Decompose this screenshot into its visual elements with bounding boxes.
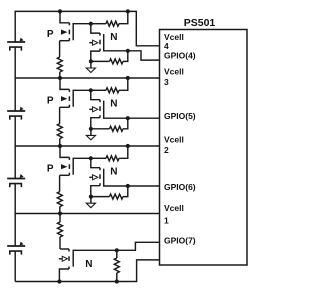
wire: top bus to Vcell 4 pin: [60, 11, 160, 45]
node: N gate / pull-down junction: [126, 184, 130, 188]
node: N gate / pull-down junction: [115, 248, 119, 252]
transistor Q7 N-channel MOSFET (bottom): [60, 248, 69, 250]
ground: [90, 61, 92, 68]
wire: Vcell 3 bus row: [15, 77, 159, 79]
node: N gate / pull-down junction: [126, 49, 130, 53]
node: top bus / pull-up resistor: [126, 9, 130, 13]
node: N source / ground junction: [89, 195, 93, 199]
svg-text:PS501: PS501: [184, 17, 216, 29]
ground: [90, 129, 92, 136]
ground: [90, 197, 92, 204]
svg-text:GPIO(7): GPIO(7): [164, 235, 196, 245]
node: bus row / balance tap: [58, 211, 62, 215]
wire: left chain top segment: [15, 11, 60, 42]
node: top bus / P source tap: [58, 9, 62, 13]
battery cell B3: [7, 110, 25, 112]
svg-text:Vcell: Vcell: [164, 135, 184, 145]
resistor R4 gate pull-up: [91, 89, 106, 91]
node: P gate / N drain junction: [89, 22, 93, 26]
resistor R2 gate pull-down: [91, 60, 110, 62]
svg-text:GPIO(5): GPIO(5): [164, 111, 196, 121]
svg-text:P: P: [47, 164, 54, 175]
resistor R3 balance: [59, 41, 61, 57]
resistor R8 gate pull-down: [91, 196, 110, 198]
wire: GPIO(5) connection: [128, 117, 160, 119]
svg-text:2: 2: [164, 145, 169, 155]
wire: [14, 47, 16, 111]
battery cell B1: [7, 245, 25, 247]
node: P gate / N drain junction: [89, 88, 93, 92]
svg-text:Vcell: Vcell: [164, 203, 184, 213]
wire: [14, 184, 16, 246]
svg-text:P: P: [47, 96, 54, 107]
transistor Q5 P-channel MOSFET: [60, 146, 69, 157]
wire: [14, 251, 16, 281]
transistor Q1 P-channel MOSFET: [60, 11, 69, 22]
svg-text:N: N: [110, 32, 117, 43]
node: bus row / pull-up resistor: [126, 144, 130, 148]
wire: GPIO(6) connection: [128, 185, 160, 187]
resistor R7 gate pull-up: [91, 157, 106, 159]
node: P gate / N drain junction: [89, 156, 93, 160]
node: bus row / balance tap: [58, 144, 62, 148]
node: bottom bus / pull-down resistor: [115, 279, 119, 283]
wire: bottom bus to Vss pin: [15, 260, 159, 282]
resistor R9 balance: [59, 175, 61, 191]
node: N source / ground junction: [89, 59, 93, 63]
svg-text:N: N: [110, 99, 117, 110]
transistor Q2 N-channel MOSFET: [91, 24, 100, 33]
wire: GPIO(4) connection: [128, 51, 160, 60]
battery cell B4: [7, 41, 25, 43]
svg-text:GPIO(6): GPIO(6): [164, 182, 196, 192]
battery cell B2: [7, 178, 25, 180]
resistor R11 gate pull-down (bottom): [116, 250, 118, 258]
transistor Q6 N-channel MOSFET: [91, 158, 100, 167]
node: N source / ground junction: [89, 127, 93, 131]
resistor R10 balance (bottom cell): [59, 214, 61, 223]
wire: GPIO(7) connection: [117, 242, 160, 250]
resistor R1 gate pull-up: [91, 23, 106, 25]
node: bus row / pull-up resistor: [126, 76, 130, 80]
transistor Q3 P-channel MOSFET: [60, 78, 69, 89]
node: bus row / balance tap: [58, 76, 62, 80]
transistor Q4 N-channel MOSFET: [91, 90, 100, 99]
svg-text:3: 3: [164, 77, 169, 87]
svg-text:GPIO(4): GPIO(4): [164, 51, 196, 61]
resistor R5 gate pull-down: [91, 128, 110, 130]
IC U1 PS501: [160, 30, 248, 266]
svg-text:N: N: [85, 259, 92, 270]
resistor R6 balance: [59, 107, 61, 123]
svg-text:Vcell: Vcell: [164, 67, 184, 77]
node: N gate / pull-down junction: [126, 116, 130, 120]
node: bottom bus / N source: [57, 279, 61, 283]
wire: [14, 116, 16, 178]
wire: Vcell 2 bus row: [15, 145, 159, 147]
wire: Vcell 1 bus row: [15, 213, 159, 215]
svg-text:1: 1: [164, 216, 169, 226]
svg-text:P: P: [47, 29, 54, 40]
svg-text:N: N: [110, 167, 117, 178]
svg-text:4: 4: [164, 41, 169, 51]
